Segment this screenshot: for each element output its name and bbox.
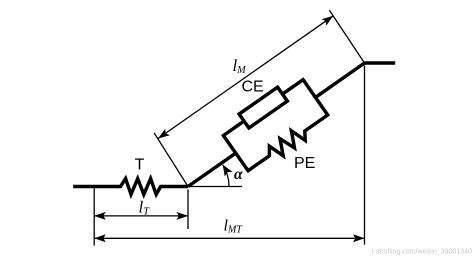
svg-text:T: T: [135, 157, 145, 174]
muscle line lower segment: [188, 153, 236, 186]
extension line at muscle upper end: [329, 10, 364, 63]
dimension line l_T: [94, 215, 188, 217]
dimension line l_M: [158, 16, 333, 139]
parallel frame with PE spring: [223, 80, 327, 171]
arrowhead l_T right: [177, 212, 189, 220]
arrowhead l_M lower: [158, 129, 170, 139]
extension line left: [93, 188, 95, 245]
right bone line: [365, 61, 396, 64]
arrowhead alpha arc: [223, 165, 233, 177]
extension line middle: [187, 190, 189, 230]
angle alpha arc: [223, 165, 229, 187]
arrowhead l_T left: [94, 212, 106, 220]
dimension line l_MT: [94, 237, 364, 239]
angle reference line: [188, 186, 242, 188]
contractile element CE box: [239, 87, 287, 128]
arrowhead l_MT left: [94, 234, 106, 242]
svg-text:CE: CE: [242, 79, 264, 96]
arrowhead l_MT right: [353, 234, 365, 242]
muscle line upper segment: [315, 63, 364, 97]
svg-text:t-strofiing.com/weixin_3900134: t-strofiing.com/weixin_39001340: [372, 249, 472, 256]
arrowhead l_M upper: [322, 16, 334, 26]
extension line at muscle lower end: [154, 133, 188, 187]
extension line right: [364, 66, 366, 245]
svg-text:α: α: [234, 166, 243, 183]
tendon line with spring T: [73, 179, 188, 195]
svg-text:PE: PE: [294, 155, 315, 172]
